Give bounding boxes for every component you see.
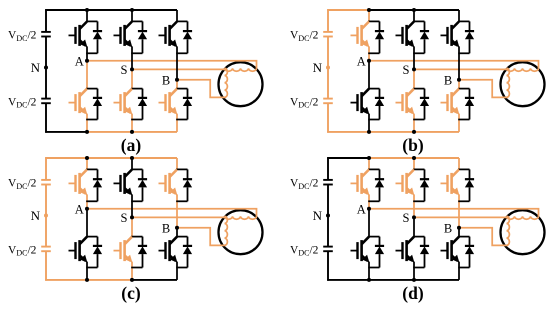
- svg-text:(d): (d): [402, 283, 424, 303]
- svg-text:N: N: [313, 208, 323, 223]
- svg-text:B: B: [444, 221, 452, 235]
- svg-text:A: A: [75, 54, 84, 68]
- svg-text:N: N: [313, 60, 323, 75]
- svg-text:A: A: [357, 54, 366, 68]
- svg-text:A: A: [75, 202, 84, 216]
- svg-text:S: S: [120, 63, 127, 77]
- svg-text:S: S: [120, 211, 127, 225]
- svg-text:(a): (a): [121, 135, 142, 155]
- svg-text:S: S: [402, 211, 409, 225]
- svg-text:(c): (c): [121, 283, 141, 303]
- svg-text:B: B: [162, 73, 170, 87]
- svg-text:B: B: [444, 73, 452, 87]
- svg-text:N: N: [31, 208, 41, 223]
- svg-text:(b): (b): [402, 135, 424, 155]
- svg-text:S: S: [402, 63, 409, 77]
- svg-text:N: N: [31, 60, 41, 75]
- svg-text:A: A: [357, 202, 366, 216]
- svg-text:B: B: [162, 221, 170, 235]
